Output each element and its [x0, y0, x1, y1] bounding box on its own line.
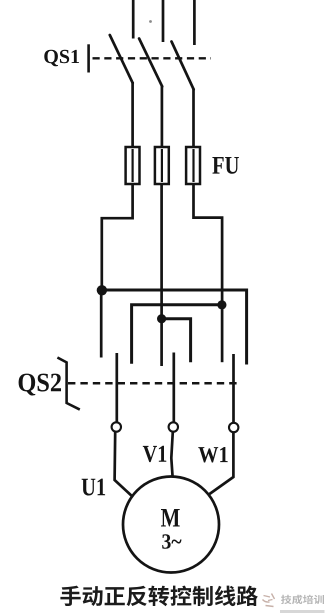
wire L1 top	[132, 0, 135, 39]
switch QS2 blade pole 2	[172, 353, 175, 423]
motor M circle	[123, 477, 219, 573]
switch QS2 blade pole 3	[232, 354, 235, 423]
QS2 contact stub L1	[100, 290, 103, 358]
wire QS1 pole1 to fuse	[131, 82, 134, 148]
switch QS1 linkage tick	[87, 44, 90, 72]
watermark underline smudge	[280, 610, 325, 613]
fuse FU phase 3	[186, 147, 200, 184]
switch QS2 label	[19, 374, 61, 396]
switch QS1 blade pole 1	[110, 35, 133, 83]
crossover wire B (L3 to left contact)	[132, 305, 223, 364]
motor label 3~	[162, 534, 181, 549]
junction dot on L2	[157, 314, 166, 323]
wire L3 top	[193, 0, 196, 45]
fuse FU phase 1	[126, 147, 140, 184]
switch QS1 blade pole 2	[139, 39, 162, 87]
wire terminal V to motor	[171, 432, 173, 477]
label V1	[143, 446, 167, 462]
wire L3 fuse to bend	[194, 184, 223, 306]
terminal circle U	[112, 422, 121, 431]
terminal circle V	[169, 422, 178, 431]
switch QS2 bracket	[57, 358, 79, 410]
wire L2 top	[162, 0, 165, 42]
watermark text 技成培训	[281, 595, 324, 605]
wire terminal U to motor	[115, 432, 134, 498]
terminal circle W	[229, 423, 238, 432]
crossover wire C (L2 branch)	[162, 319, 191, 363]
switch QS2 linkage dashed line	[68, 382, 239, 385]
label U1	[82, 479, 106, 496]
junction dot on L1	[97, 285, 107, 295]
motor label M	[161, 509, 180, 527]
QS2 contact stub L2	[160, 319, 163, 366]
fuse FU phase 2	[155, 147, 169, 184]
crossover wire A (L1 to right contact)	[101, 290, 247, 365]
junction dot on L3	[217, 300, 226, 309]
wire terminal W to motor	[210, 432, 234, 494]
switch QS1 linkage dashed line	[93, 57, 212, 59]
wire QS1 pole3 to fuse	[192, 89, 195, 149]
scan speck	[149, 20, 152, 23]
watermark logo	[263, 594, 275, 607]
wire L2 fuse straight down	[160, 184, 163, 320]
caption text 手动正反转控制线路	[60, 586, 258, 607]
switch QS1 blade pole 3	[172, 42, 194, 90]
label FU	[212, 157, 239, 174]
switch QS1 label	[44, 50, 79, 67]
wire L1 fuse to bend	[102, 184, 133, 291]
wire QS1 pole2 to fuse	[161, 86, 164, 149]
switch QS2 blade pole 1	[115, 353, 118, 422]
label W1	[198, 447, 227, 463]
QS2 contact stub L3	[221, 305, 224, 362]
